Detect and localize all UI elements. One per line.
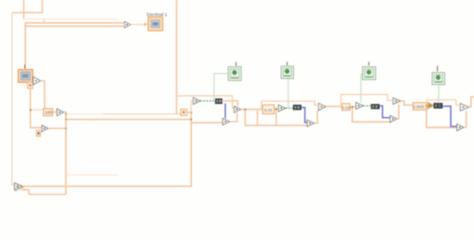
wire junction up to comparison1 [191, 101, 193, 112]
svg-text:0.0625: 0.0625 [414, 105, 424, 109]
wire branch to box100 left [30, 109, 43, 111]
wire add input1 [25, 22, 124, 24]
wire box4 out [426, 105, 428, 107]
wire select1 orange out [222, 101, 238, 106]
op-amp triangle2 s3 [390, 116, 397, 123]
wire bypass3 [341, 95, 393, 107]
wire s2 box riser from rail [256, 111, 258, 126]
op-amp comparison1 [193, 98, 200, 105]
constant box s3 [342, 104, 351, 111]
op-amp triangle2 s4 [457, 124, 464, 131]
indicator connector arrow [144, 23, 147, 27]
node junction s1 out [244, 109, 246, 111]
boolean terminal 1 [228, 62, 241, 80]
svg-text:Decimal 1: Decimal 1 [147, 12, 168, 17]
node junctions on x191 [190, 111, 192, 113]
op-amp comparison4 [428, 102, 434, 108]
op-amp triangle3 s3 [393, 98, 401, 104]
wire stage2 to stage3 [326, 105, 342, 107]
wire top vertical x24 [23, 0, 25, 19]
node junctions on x66 [65, 113, 67, 115]
wire stage1 lower rail jog [191, 122, 223, 124]
control terminal label tick [24, 65, 26, 69]
wire add to indicator [131, 24, 145, 26]
wire control triangle down to box100 [41, 81, 45, 109]
wire final output to edge [469, 97, 474, 107]
constant box s1 [181, 109, 187, 115]
wire box100 to triangle [53, 111, 57, 113]
wire select3 blue [379, 106, 390, 118]
wire bottom rail to stage1 [23, 112, 191, 186]
op-amp triangle3 s4 [460, 103, 468, 111]
wire faint mid rail [66, 174, 118, 176]
wire green s2 [286, 107, 294, 109]
wire top-left corner H [12, 0, 42, 13]
wire stage2 bottom rail from s1 out [245, 109, 307, 125]
indicator Decimal 1 [147, 12, 168, 31]
wire select2 blue [301, 108, 307, 123]
node junction s3 [351, 106, 353, 108]
wire branch rail B [66, 118, 191, 120]
wire jog from faint line [43, 19, 45, 23]
wire box3 out [350, 106, 356, 108]
svg-text:0.125: 0.125 [342, 106, 350, 110]
wire bypass2 [261, 101, 318, 109]
node junction t10 [65, 128, 67, 130]
wire box s1 to junction [187, 111, 191, 113]
wire triangle2 s3 up [397, 104, 399, 119]
wire select1 blue down [224, 103, 226, 118]
unit box under control [28, 82, 33, 88]
wire bypass4 [427, 100, 461, 106]
wire s2 down rail [275, 109, 277, 125]
node junction s4 [426, 105, 428, 107]
wire long vertical from top x176 [176, 0, 178, 114]
select node s1 [215, 99, 222, 104]
node junction s2 [275, 108, 277, 110]
constant box s2 [263, 105, 275, 114]
op-amp control multiply triangle [33, 77, 40, 85]
constant box s4 [413, 103, 426, 110]
op-amp triangle2 s2 [307, 120, 314, 127]
op-amp comparison2 [279, 105, 286, 112]
wire bottom return loop [22, 190, 66, 195]
svg-text:100: 100 [45, 110, 53, 115]
op-amp triangle10 [42, 125, 48, 131]
wire triangle2 s2 up [314, 110, 317, 123]
op-amp add triangle [125, 21, 131, 28]
wire stage3 to stage4 [401, 101, 414, 105]
wire green s3 [363, 105, 371, 107]
wire pale green to terminal1 [214, 74, 228, 101]
wire small box down left column [30, 88, 42, 127]
constant small 10 [37, 130, 41, 136]
select node s3 [371, 104, 379, 109]
op-amp divide triangle T1 [57, 109, 64, 116]
wire pale green terminal3 [361, 74, 363, 102]
wire T1 output corner down [64, 112, 66, 194]
wire s4 down rail [427, 106, 457, 128]
wire bypass1 [177, 96, 235, 108]
wire triangle2 s4 up [464, 111, 466, 128]
wire pale green terminal4 [438, 85, 440, 103]
wire s3 down rail [352, 107, 390, 122]
boolean terminal 2 [281, 62, 293, 79]
wire left long vertical [12, 13, 15, 185]
op-amp triangle3 s1 [234, 106, 241, 112]
control terminal DBL [19, 70, 33, 83]
wire triangle2 s1 up to triangle3 [230, 113, 237, 122]
op-amp triangle3 s2 [319, 103, 326, 110]
wire box2 out [274, 108, 278, 110]
boolean terminal 4 [432, 66, 445, 85]
op-amp bottom-left triangle [15, 183, 24, 191]
wire select4 blue [443, 106, 457, 126]
select node s4 [434, 103, 443, 108]
constant 100 [44, 109, 53, 116]
wire add input2 [25, 26, 124, 69]
wire riser to add input1 [24, 23, 26, 26]
wire pale green terminal2 [287, 78, 289, 108]
wire branch to stage1 upper [66, 113, 103, 115]
wire faint y19 [24, 18, 118, 20]
select node s2 [293, 105, 301, 110]
node junction left column [30, 109, 32, 111]
wire stage1 to stage2 [241, 108, 263, 110]
boolean terminal 3 [363, 62, 376, 80]
wire triangle10 output [48, 127, 66, 129]
op-amp triangle2 s1 [223, 118, 230, 125]
wire green s1 [200, 100, 215, 102]
svg-text:6.25: 6.25 [264, 108, 273, 113]
wire box10 to triangle10 [40, 130, 42, 132]
op-amp comparison3 [356, 102, 363, 109]
